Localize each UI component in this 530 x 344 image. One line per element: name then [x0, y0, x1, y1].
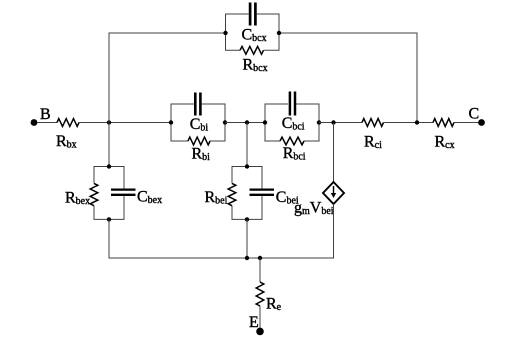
wire stem down to R_bei [246, 123, 248, 167]
node junction source top [331, 120, 335, 124]
wire vertical left riser [109, 33, 226, 123]
resistor R_bex [65, 167, 109, 220]
wire bei bottom stem [246, 219, 248, 258]
node junction bei bottom [245, 256, 249, 260]
node box bcx right [277, 31, 281, 35]
resistor R_bi [171, 123, 225, 163]
wire current source bottom stem [333, 204, 335, 258]
wire B to R_bx [37, 122, 57, 124]
svg-text:B: B [40, 106, 51, 123]
node box bex top [107, 164, 111, 168]
wire emitter stem [259, 258, 261, 282]
wire bottom rail [109, 257, 335, 259]
node junction base [107, 120, 111, 124]
node box bi left [169, 120, 173, 124]
wire R_e to E [259, 306, 261, 331]
node box bci right [317, 120, 321, 124]
node box bi right [223, 120, 227, 124]
node box bei top [245, 164, 249, 168]
resistor R_cx [433, 119, 455, 151]
node box bex bottom [107, 217, 111, 221]
wire stem down to current source [333, 123, 335, 183]
resistor R_ci [362, 119, 384, 151]
node C [469, 106, 485, 126]
wire bex bottom stem [108, 219, 110, 258]
node B [31, 106, 51, 126]
capacitor C_bex [109, 167, 162, 220]
wire C_bi box to C_bci box [225, 122, 265, 124]
resistor R_bcx [226, 33, 280, 74]
wire R_cx to C [454, 122, 479, 124]
wire stem B junction down [108, 123, 110, 167]
capacitor C_bei [247, 167, 299, 220]
wire R_ci to R_cx [384, 122, 434, 124]
resistor R_e [256, 282, 281, 313]
capacitor C_bci [265, 92, 319, 133]
resistor R_bci [265, 123, 319, 163]
node E [249, 314, 264, 335]
resistor R_bx [56, 119, 79, 151]
resistor R_bei [205, 167, 248, 220]
node box bcx left [223, 31, 227, 35]
svg-text:E: E [249, 314, 259, 331]
svg-text:C: C [469, 106, 480, 123]
wire C_bci box to R_ci [319, 122, 362, 124]
current source g_m V_bei [294, 182, 344, 217]
capacitor C_bcx [226, 3, 280, 45]
wire R_bx to C_bi box [79, 122, 171, 124]
node box bei bottom [245, 217, 249, 221]
node junction collector riser [415, 120, 419, 124]
node box bci left [263, 120, 267, 124]
wire top rail right [279, 33, 417, 123]
capacitor C_bi [171, 93, 225, 134]
node junction emitter [258, 256, 262, 260]
node junction mid [245, 120, 249, 124]
